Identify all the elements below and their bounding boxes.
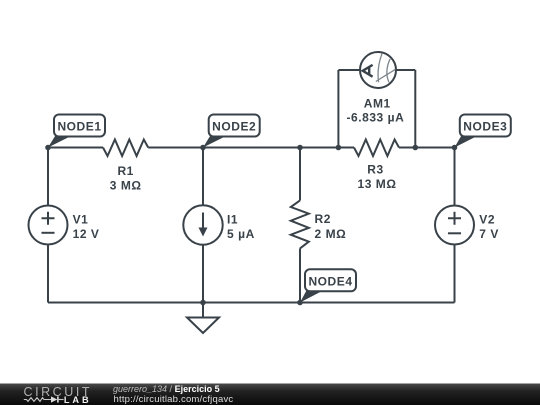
resistor R2 — [291, 200, 309, 248]
voltage source V2 — [435, 206, 474, 245]
wire V1 bottom to bottom rail — [47, 245, 49, 303]
svg-text:-6.833 µA: -6.833 µA — [346, 111, 404, 125]
footer bar — [0, 384, 540, 405]
I1 arrow shaft — [202, 213, 204, 231]
wire bottom rail middle segment — [203, 302, 300, 304]
svg-text:guerrero_134 / Ejercicio 5: guerrero_134 / Ejercicio 5 — [113, 384, 220, 394]
wire R2 top lead — [299, 148, 301, 201]
wire ammeter-loop right vertical — [414, 70, 416, 148]
wire V2 bottom to bottom rail — [454, 245, 456, 303]
wire bottom rail left segment — [48, 302, 203, 304]
ammeter needle — [376, 69, 396, 81]
node junction dot ammeter left — [336, 145, 342, 151]
node junction dot R2 top — [297, 145, 303, 151]
node junction dot NODE2 — [200, 145, 206, 151]
wire NODE1 to R1 left lead — [48, 147, 103, 149]
V1 plus sign — [42, 212, 55, 225]
wire NODE1 down to V1 top — [47, 148, 49, 206]
wire R1 to NODE2 — [148, 147, 203, 149]
svg-text:NODE2: NODE2 — [212, 120, 256, 134]
current source I1 — [183, 205, 222, 244]
footer logo diode symbol — [51, 396, 57, 402]
wire ammeter-loop top left — [338, 69, 360, 71]
svg-text:5 µA: 5 µA — [227, 227, 255, 241]
svg-text:V2: V2 — [479, 213, 495, 227]
wire NODE2 down to I1 top — [202, 148, 204, 206]
ammeter scale arc 2 — [387, 59, 390, 83]
svg-text:3 MΩ: 3 MΩ — [110, 178, 142, 192]
svg-text:http://circuitlab.com/cfjqavc: http://circuitlab.com/cfjqavc — [114, 394, 234, 405]
resistor R3 — [354, 140, 399, 157]
node junction dot NODE4 — [297, 300, 303, 306]
ground symbol triangle — [187, 318, 219, 334]
I1 arrow head — [199, 228, 208, 237]
svg-text:AM1: AM1 — [364, 97, 391, 111]
node junction dot ammeter right — [413, 145, 419, 151]
ammeter letter A (rotated, apex pointing left) — [363, 65, 373, 77]
svg-text:R3: R3 — [367, 163, 383, 177]
node label NODE4 — [300, 269, 356, 302]
resistor R1 — [103, 140, 148, 157]
wire R3 right lead to ammeter-loop right — [399, 147, 415, 149]
V2 plus sign — [448, 212, 461, 225]
svg-text:I1: I1 — [227, 213, 238, 227]
wire R2 bottom lead — [299, 248, 301, 302]
svg-text:12 V: 12 V — [73, 227, 100, 241]
node junction dot NODE3 — [452, 145, 458, 151]
svg-text:13 MΩ: 13 MΩ — [357, 177, 396, 191]
node junction dot NODE1 — [45, 145, 51, 151]
wire R2 top to ammeter-loop left — [300, 147, 338, 149]
wire NODE3 down to V2 top — [454, 148, 456, 206]
node junction dot ground — [200, 300, 206, 306]
V1 minus sign — [42, 232, 55, 234]
svg-text:7 V: 7 V — [479, 227, 499, 241]
footer logo resistor zigzag — [24, 398, 51, 402]
ammeter AM1 body — [360, 52, 396, 88]
ground stub — [202, 303, 204, 318]
svg-text:V1: V1 — [73, 213, 89, 227]
voltage source V1 — [29, 206, 68, 245]
svg-text:R2: R2 — [315, 212, 331, 226]
svg-text:NODE4: NODE4 — [308, 274, 352, 288]
node label NODE3 — [455, 115, 511, 148]
ammeter scale arc 1 — [378, 54, 382, 83]
wire I1 bottom to bottom rail — [202, 245, 204, 303]
svg-text:LAB: LAB — [64, 395, 92, 405]
svg-text:R1: R1 — [117, 164, 133, 178]
svg-text:2 MΩ: 2 MΩ — [315, 227, 347, 241]
wire NODE2 to R2 top — [203, 147, 300, 149]
node label NODE1 — [48, 115, 105, 148]
node label NODE2 — [203, 115, 260, 148]
wire ammeter-loop right to NODE3 — [415, 147, 454, 149]
wire bottom rail right segment — [300, 302, 455, 304]
V2 minus sign — [448, 232, 461, 234]
svg-text:NODE1: NODE1 — [57, 120, 101, 134]
wire ammeter-loop left vertical — [337, 70, 339, 148]
wire ammeter-loop left to R3 left lead — [338, 147, 354, 149]
wire ammeter-loop top right — [396, 69, 415, 71]
svg-text:NODE3: NODE3 — [463, 120, 507, 134]
